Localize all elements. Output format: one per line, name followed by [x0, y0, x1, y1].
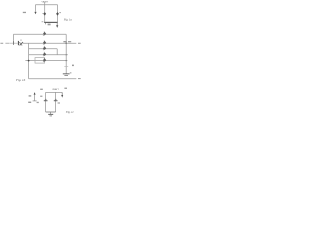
- svg-text:Fig. 1b: Fig. 1b: [15, 78, 26, 82]
- svg-text:Fig. 1a: Fig. 1a: [63, 18, 72, 21]
- svg-text:Fig. 1c: Fig. 1c: [65, 111, 75, 114]
